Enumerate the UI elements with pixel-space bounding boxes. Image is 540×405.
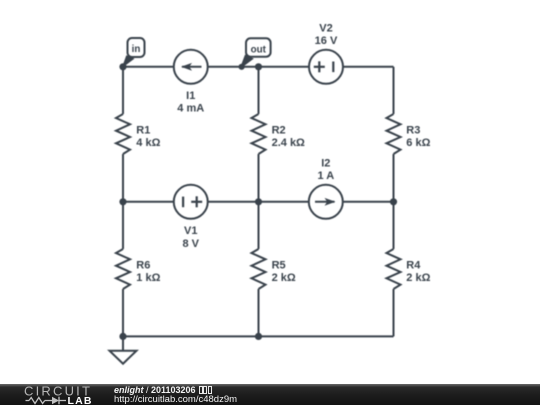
svg-text:16 V: 16 V [315, 35, 338, 47]
svg-text:R2: R2 [272, 125, 286, 137]
svg-text:R1: R1 [136, 125, 150, 137]
svg-text:4 kΩ: 4 kΩ [136, 137, 160, 149]
svg-text:1 kΩ: 1 kΩ [136, 272, 160, 284]
svg-text:R5: R5 [272, 260, 286, 272]
svg-text:2 kΩ: 2 kΩ [272, 272, 296, 284]
svg-text:2.4 kΩ: 2.4 kΩ [272, 137, 305, 149]
svg-text:in: in [132, 44, 141, 55]
svg-text:8 V: 8 V [182, 238, 199, 250]
svg-text:LAB: LAB [68, 395, 93, 405]
svg-text:R6: R6 [136, 260, 150, 272]
svg-text:4 mA: 4 mA [177, 103, 204, 115]
svg-text:V1: V1 [184, 225, 197, 237]
svg-text:V2: V2 [319, 22, 332, 34]
svg-text:R3: R3 [406, 125, 420, 137]
svg-text:6 kΩ: 6 kΩ [406, 137, 430, 149]
svg-text:1 A: 1 A [317, 170, 334, 182]
svg-text:I1: I1 [186, 90, 195, 102]
svg-text:2 kΩ: 2 kΩ [406, 272, 430, 284]
svg-text:out: out [251, 45, 267, 56]
svg-text:R4: R4 [406, 260, 421, 272]
svg-text:I2: I2 [321, 158, 330, 170]
